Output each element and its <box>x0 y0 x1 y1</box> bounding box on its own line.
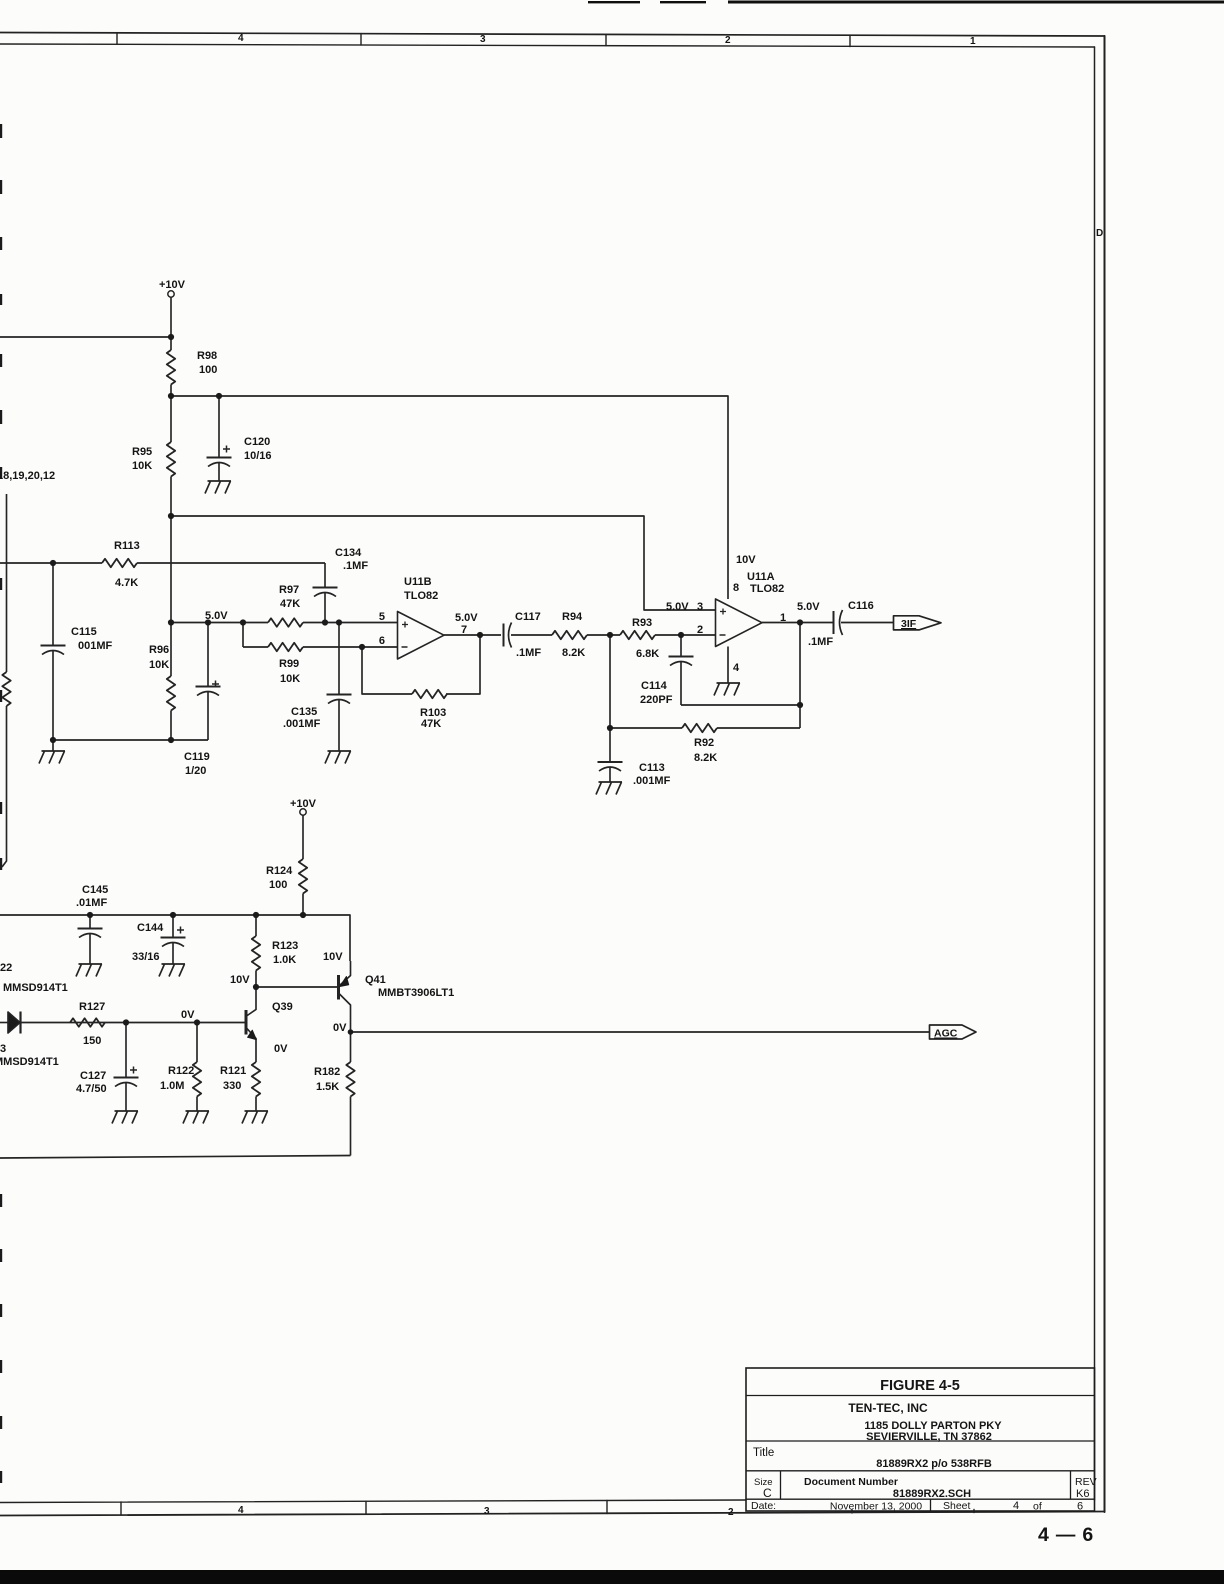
border top tick 4 <box>849 35 851 46</box>
border top tick 2 <box>360 34 362 45</box>
wire R124 to rail <box>302 894 304 916</box>
svg-text:U11B: U11B <box>404 576 432 588</box>
wire C115 top <box>52 563 54 645</box>
border bottom lower line <box>0 1512 1105 1516</box>
capacitor C127 <box>114 1023 139 1112</box>
ground for R122 <box>183 1111 209 1124</box>
diode D23 MMSD914T1 <box>0 1012 21 1034</box>
resistor R122 <box>193 1062 201 1096</box>
ground for C113 <box>596 782 622 795</box>
svg-text:3: 3 <box>484 1506 490 1517</box>
capacitor C145 <box>78 915 103 964</box>
svg-text:5.0V: 5.0V <box>455 612 478 624</box>
svg-text:100: 100 <box>199 364 217 376</box>
svg-text:C144: C144 <box>137 922 164 934</box>
svg-text:R99: R99 <box>279 658 299 670</box>
+10V supply terminal lower <box>300 809 306 815</box>
resistor R96 <box>167 676 175 711</box>
svg-text:8: 8 <box>733 582 739 594</box>
svg-text:2: 2 <box>728 1507 734 1518</box>
wire +10V stem <box>170 297 172 350</box>
svg-text:10V: 10V <box>230 974 250 986</box>
wire AGC line <box>351 1031 930 1033</box>
svg-text:R121: R121 <box>220 1065 246 1077</box>
svg-text:FIGURE 4-5: FIGURE 4-5 <box>880 1378 960 1394</box>
svg-text:Document Number: Document Number <box>804 1476 898 1488</box>
svg-text:of: of <box>1033 1501 1042 1513</box>
svg-text:C114: C114 <box>641 680 668 692</box>
resistor R103 <box>412 690 447 698</box>
wire ground rail 740 <box>53 739 208 741</box>
svg-text:+10V: +10V <box>159 279 186 291</box>
svg-text:6.8K: 6.8K <box>636 648 659 660</box>
svg-text:November 13, 2000: November 13, 2000 <box>830 1501 922 1513</box>
wire C120 stem <box>218 396 220 457</box>
svg-text:C145: C145 <box>82 884 108 896</box>
transistor Q39 <box>246 987 256 1062</box>
svg-text:47K: 47K <box>280 598 300 610</box>
resistor R182 <box>346 1062 354 1096</box>
svg-text:330: 330 <box>223 1080 241 1092</box>
wire U11B output <box>444 634 501 636</box>
svg-text:1.0M: 1.0M <box>160 1080 184 1092</box>
svg-text:R122: R122 <box>168 1065 194 1077</box>
ground for R121 <box>242 1111 268 1124</box>
svg-text:TEN-TEC, INC: TEN-TEC, INC <box>848 1401 928 1415</box>
border bottom tick 3 <box>606 1501 608 1514</box>
svg-text:SEVIERVILLE, TN 37862: SEVIERVILLE, TN 37862 <box>866 1431 992 1443</box>
wire R94 to R93 <box>587 634 620 636</box>
svg-text:33/16: 33/16 <box>132 951 160 963</box>
svg-text:REV: REV <box>1075 1476 1097 1488</box>
ground for C145 <box>76 964 102 977</box>
capacitor C117 <box>504 623 512 648</box>
svg-text:10K: 10K <box>149 659 169 671</box>
svg-text:R95: R95 <box>132 446 152 458</box>
svg-text:5.0V: 5.0V <box>666 601 689 613</box>
title block outer box <box>746 1368 1095 1511</box>
svg-text:R113: R113 <box>114 540 140 552</box>
title block size divider <box>780 1471 782 1499</box>
wire C116 to 3IF port <box>841 622 894 624</box>
title block row line 2 <box>746 1440 1095 1442</box>
wire 10V rail to U11A pin8 <box>171 396 728 599</box>
svg-text:C127: C127 <box>80 1070 106 1082</box>
svg-text:4: 4 <box>238 1505 244 1516</box>
border top tick 1 <box>116 33 118 45</box>
transistor Q39 emitter arrow <box>248 1030 257 1039</box>
svg-text:2: 2 <box>697 624 703 636</box>
svg-text:TLO82: TLO82 <box>404 590 438 602</box>
svg-text:3: 3 <box>697 601 703 613</box>
svg-text:4—6: 4—6 <box>1038 1524 1100 1546</box>
svg-text:001MF: 001MF <box>78 640 113 652</box>
wire C113 branch <box>609 635 611 728</box>
ground for C127 <box>112 1111 138 1124</box>
border right outer line <box>1104 36 1106 1512</box>
svg-text:R97: R97 <box>279 584 299 596</box>
wire R95 to 516 rail <box>170 477 172 517</box>
svg-text:R96: R96 <box>149 644 169 656</box>
resistor R99 <box>268 643 303 651</box>
svg-text:C116: C116 <box>848 600 874 612</box>
border bottom tick 2 <box>365 1501 367 1514</box>
svg-text:5: 5 <box>379 611 385 623</box>
transistor Q41 emitter arrow <box>340 977 349 987</box>
border top tick 3 <box>605 34 607 45</box>
wire U11B feedback <box>362 635 480 694</box>
svg-text:C120: C120 <box>244 436 270 448</box>
svg-text:7: 7 <box>461 624 467 636</box>
svg-text:100: 100 <box>269 879 287 891</box>
wire R97 to pin5 <box>303 622 398 624</box>
border bottom upper line <box>0 1500 746 1503</box>
wire R123 to 10V node <box>255 971 257 988</box>
title block row line 4 <box>746 1498 1095 1500</box>
output port AGC <box>930 1025 977 1039</box>
junction dots lower section <box>87 912 353 1035</box>
+10V supply terminal <box>168 291 174 297</box>
resistor R113 <box>102 559 137 567</box>
capacitor C134 <box>313 563 338 623</box>
svg-text:10K: 10K <box>132 460 152 472</box>
svg-text:C115: C115 <box>71 626 97 638</box>
svg-text:4: 4 <box>238 33 244 44</box>
ground for U11A pin4 <box>714 683 740 696</box>
wire R93 to U11A pin2 <box>655 634 716 636</box>
svg-text:C119: C119 <box>184 751 210 763</box>
svg-text:TLO82: TLO82 <box>750 583 784 595</box>
ground for C135 <box>325 751 351 764</box>
svg-text:47K: 47K <box>421 718 441 730</box>
svg-text:.1MF: .1MF <box>516 647 541 659</box>
svg-text:Q41: Q41 <box>365 974 386 986</box>
svg-text:R124: R124 <box>266 865 293 877</box>
ground below C115 rail <box>39 740 65 764</box>
wire U11A pin4 to ground <box>727 647 729 684</box>
resistor R93 <box>620 631 655 639</box>
wire U11A output <box>762 622 833 624</box>
resistor R98 <box>167 350 175 385</box>
wire R113 to C134 <box>137 562 325 564</box>
svg-text:10V: 10V <box>323 951 343 963</box>
resistor R121 <box>252 1062 260 1096</box>
border bottom tick 1 <box>120 1502 122 1515</box>
op-amp U11B <box>398 612 445 660</box>
svg-text:5.0V: 5.0V <box>205 610 228 622</box>
title block sheet divider <box>930 1499 932 1511</box>
svg-text:150: 150 <box>83 1035 101 1047</box>
capacitor C119 <box>196 623 221 741</box>
capacitor C120 <box>207 446 232 482</box>
wire R121 bottom <box>255 1097 257 1112</box>
capacitor C115 <box>41 646 66 741</box>
svg-text:4: 4 <box>1013 1500 1019 1512</box>
svg-text:K6: K6 <box>1076 1488 1089 1500</box>
border bottom tick 4 <box>851 1510 853 1513</box>
wire 516 rail to U11A pin3 <box>171 516 716 610</box>
svg-text:MMSD914T1: MMSD914T1 <box>3 982 68 994</box>
border bottom tick 5 <box>973 1509 975 1512</box>
svg-text:C: C <box>763 1486 772 1500</box>
svg-text:D: D <box>1096 228 1103 239</box>
capacitor C116 <box>834 610 843 635</box>
wire supply rail 915 <box>0 915 350 961</box>
svg-text:81889RX2 p/o 538RFB: 81889RX2 p/o 538RFB <box>876 1458 992 1470</box>
resistor R97 <box>268 618 303 626</box>
wire R98 to 10V rail <box>170 385 172 397</box>
svg-text:2: 2 <box>725 35 731 46</box>
svg-text:+10V: +10V <box>290 798 317 810</box>
svg-text:1.5K: 1.5K <box>316 1081 339 1093</box>
svg-text:R93: R93 <box>632 617 652 629</box>
svg-text:4: 4 <box>733 662 740 674</box>
resistor R94 <box>552 631 587 639</box>
wire R182 to bottom rail <box>350 1097 352 1156</box>
wire diode to Q39 base <box>21 1022 247 1024</box>
svg-text:1/20: 1/20 <box>185 765 206 777</box>
svg-text:0V: 0V <box>333 1022 347 1034</box>
svg-text:10/16: 10/16 <box>244 450 272 462</box>
wire +10V to R124 <box>302 815 304 859</box>
wire R95 top <box>170 396 172 442</box>
resistor R95 <box>167 442 175 477</box>
svg-text:8.2K: 8.2K <box>694 752 717 764</box>
svg-text:8.2K: 8.2K <box>562 647 585 659</box>
resistor R127 <box>70 1018 105 1026</box>
wire C117 to R94 <box>511 634 552 636</box>
svg-text:R98: R98 <box>197 350 217 362</box>
wire R113 rail left <box>0 562 102 564</box>
svg-text:1.0K: 1.0K <box>273 954 296 966</box>
resistor R92 <box>682 724 717 732</box>
svg-text:C135: C135 <box>291 706 317 718</box>
svg-text:22: 22 <box>0 962 12 974</box>
svg-text:.01MF: .01MF <box>76 897 107 909</box>
svg-text:18,19,20,12: 18,19,20,12 <box>0 470 55 482</box>
wire R182 top <box>350 1032 352 1062</box>
svg-text:Date:: Date: <box>751 1500 776 1512</box>
svg-text:R127: R127 <box>79 1001 105 1013</box>
title block row line 1 <box>746 1395 1095 1397</box>
svg-text:81889RX2.SCH: 81889RX2.SCH <box>893 1488 971 1500</box>
border frame top outer line <box>0 33 1105 37</box>
svg-text:220PF: 220PF <box>640 694 673 706</box>
svg-text:3: 3 <box>480 34 486 45</box>
resistor R123 <box>252 936 260 971</box>
svg-text:6: 6 <box>1077 1501 1083 1513</box>
svg-text:4.7K: 4.7K <box>115 577 138 589</box>
op-amp U11A <box>716 599 763 647</box>
svg-text:1: 1 <box>970 36 976 47</box>
output port 3IF <box>894 616 942 630</box>
svg-text:3: 3 <box>0 1043 6 1055</box>
svg-text:Q39: Q39 <box>272 1001 293 1013</box>
top edge scan artifact line <box>588 1 1224 4</box>
wire from left edge to +10V node <box>0 336 171 338</box>
svg-text:MMSD914T1: MMSD914T1 <box>0 1056 59 1068</box>
capacitor C114 <box>669 635 694 705</box>
svg-text:C113: C113 <box>639 762 665 774</box>
capacitor C144 <box>161 915 186 964</box>
capacitor C113 <box>598 728 623 782</box>
svg-text:U11A: U11A <box>747 571 775 583</box>
svg-text:0V: 0V <box>274 1043 288 1055</box>
transistor Q41 <box>339 961 351 1032</box>
junction dots upper section <box>50 334 803 743</box>
svg-text:0V: 0V <box>181 1009 195 1021</box>
wire pin6 segments <box>243 646 398 648</box>
wire R122 top <box>196 1023 198 1063</box>
bottom black scan bar <box>0 1570 1224 1584</box>
svg-text:Sheet: Sheet <box>943 1500 971 1512</box>
svg-text:10V: 10V <box>736 554 756 566</box>
wire C114 to output feedback <box>681 704 800 706</box>
border frame top inner line <box>0 44 1095 47</box>
capacitor C135 <box>327 623 352 752</box>
svg-text:.1MF: .1MF <box>343 560 368 572</box>
svg-text:R92: R92 <box>694 737 714 749</box>
svg-text:Title: Title <box>753 1447 774 1459</box>
svg-text:MMBT3906LT1: MMBT3906LT1 <box>378 987 454 999</box>
wire output feedback column <box>799 623 801 729</box>
title block rev divider <box>1070 1471 1072 1499</box>
svg-text:3IF: 3IF <box>901 618 917 630</box>
svg-text:4.7/50: 4.7/50 <box>76 1083 107 1095</box>
title block row line 3 <box>746 1470 1095 1472</box>
wire Q41 base rail <box>256 986 338 988</box>
svg-text:R94: R94 <box>562 611 583 623</box>
svg-text:R182: R182 <box>314 1066 340 1078</box>
svg-text:AGC: AGC <box>934 1028 958 1040</box>
svg-text:5.0V: 5.0V <box>797 601 820 613</box>
svg-text:.001MF: .001MF <box>283 718 321 730</box>
svg-text:.1MF: .1MF <box>808 636 833 648</box>
wire R123 top <box>255 915 257 936</box>
left edge zone tick marks <box>0 124 2 1483</box>
wire R96 column <box>170 516 172 676</box>
wire R122 bottom <box>196 1097 198 1112</box>
left edge partial wire with resistor <box>2 494 11 867</box>
wire pin5 to pin6 branch <box>242 623 244 648</box>
svg-text:10K: 10K <box>280 673 300 685</box>
wire R96 bottom <box>170 711 172 741</box>
ground for C120 <box>205 481 231 494</box>
svg-text:1: 1 <box>780 612 786 624</box>
svg-text:R123: R123 <box>272 940 298 952</box>
svg-text:C117: C117 <box>515 611 541 623</box>
wire bottom rail <box>0 1156 351 1159</box>
svg-text:6: 6 <box>379 635 385 647</box>
wire R92 rail <box>610 727 800 729</box>
svg-text:.001MF: .001MF <box>633 775 671 787</box>
border right inner line <box>1094 47 1096 1500</box>
ground for C144 <box>159 964 185 977</box>
resistor R124 <box>299 859 307 894</box>
svg-text:C134: C134 <box>335 547 362 559</box>
wire 5.0V node line to op-amp pin5 <box>171 622 268 624</box>
